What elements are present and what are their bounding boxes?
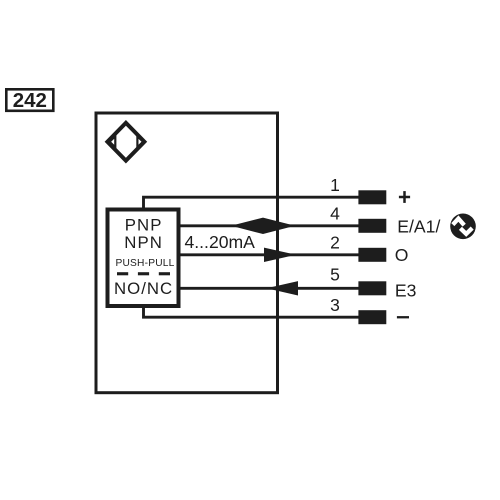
svg-text:PNP: PNP [125,215,163,234]
terminal block pin 5 [358,281,386,295]
wire 5 [181,287,359,290]
output stage box U1 [108,210,179,307]
svg-text:O: O [395,245,409,265]
svg-text:4: 4 [330,204,340,224]
svg-text:PUSH-PULL: PUSH-PULL [116,258,175,269]
output arrow on wire 2 [264,248,296,262]
svg-text:2: 2 [330,232,340,252]
svg-text:E/A1/: E/A1/ [397,216,440,236]
svg-text:NO/NC: NO/NC [114,279,173,298]
optical sensor symbol (diamond with emitter/receiver triangles) [107,123,144,161]
terminal block pin 1 [358,190,386,204]
terminal block pin 2 [358,248,386,262]
sensor body outline [96,113,278,393]
svg-text:4...20mA: 4...20mA [185,232,256,252]
net label + (supply) [399,191,410,203]
teach icon (up/down chevrons in circle) [450,214,476,240]
input arrow on wire 5 [267,281,299,295]
svg-text:NPN: NPN [124,233,163,252]
terminal block pin 3 [358,310,386,324]
net label - (supply minus) [397,316,409,318]
svg-text:3: 3 [330,295,340,315]
wire 1 [144,197,359,208]
bidirectional flow diamond on wire 4 [231,218,295,234]
figure number label 242 [6,89,53,112]
svg-text:242: 242 [13,89,47,112]
wire 4 [181,224,359,227]
wire 3 [144,307,359,317]
terminal block pin 4 [358,219,386,233]
svg-text:1: 1 [330,175,340,195]
svg-text:5: 5 [330,264,340,284]
svg-text:E3: E3 [395,280,417,300]
wire 2 [181,253,359,256]
